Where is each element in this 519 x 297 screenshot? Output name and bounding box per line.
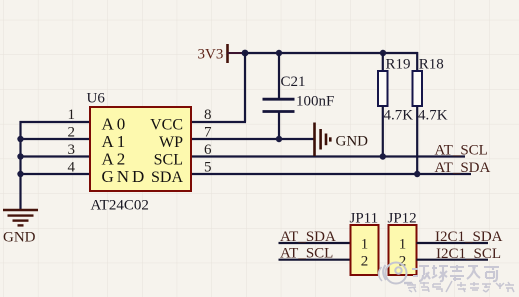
pin number 5 [204, 160, 212, 176]
svg-text:I2C1_SDA: I2C1_SDA [435, 229, 503, 245]
net label AT_SDA [435, 160, 491, 176]
designator JP12 [388, 211, 417, 227]
svg-text:1: 1 [361, 236, 369, 252]
JP12 pin 1 [399, 236, 407, 252]
wire JP12 pin2 I2C1_SCL [417, 259, 489, 261]
svg-text:4.7K: 4.7K [418, 108, 448, 124]
svg-text:AT_SDA: AT_SDA [280, 229, 336, 245]
power port 3V3 [198, 44, 246, 63]
svg-text:GND: GND [336, 134, 369, 150]
svg-text:GND: GND [3, 230, 36, 246]
svg-text:1: 1 [68, 107, 76, 123]
svg-text:AT24C02: AT24C02 [91, 198, 149, 214]
pin number 4 [68, 160, 76, 176]
watermark big text strokes [412, 265, 499, 281]
svg-text:AT_SDA: AT_SDA [435, 160, 491, 176]
junction C21 bottom [276, 136, 282, 142]
svg-text:WP: WP [159, 134, 183, 151]
junction R18 bottom [414, 171, 420, 177]
part name AT24C02 [91, 198, 149, 214]
pin name A0 [102, 114, 129, 133]
junction pin2 bus [17, 136, 23, 142]
net label I2C1_SCL [436, 246, 501, 262]
svg-text:A2: A2 [102, 149, 129, 168]
label C21 [281, 74, 306, 90]
capacitor C21 [263, 53, 295, 139]
svg-text:C21: C21 [281, 74, 306, 90]
net label AT_SCL [435, 142, 488, 158]
wire pin6 AT_SCL [191, 155, 465, 157]
ground symbol left [3, 210, 38, 225]
wire VCC drop [244, 52, 246, 122]
resistor R19 [378, 53, 388, 157]
pin number 1 [68, 107, 76, 123]
net label AT_SDA (JP11) [280, 229, 336, 245]
svg-text:1: 1 [399, 236, 407, 252]
svg-text:R18: R18 [419, 57, 444, 73]
net label I2C1_SDA [435, 229, 503, 245]
wire 3V3 rail [245, 52, 418, 54]
label R18 [419, 57, 444, 73]
resistor R18 [413, 52, 423, 174]
svg-text:U6: U6 [87, 91, 106, 107]
junction 3V3 stub [242, 50, 249, 57]
svg-text:100nF: 100nF [296, 94, 334, 110]
pin name SDA [151, 169, 183, 186]
wire pin1 left [20, 121, 91, 123]
junction C21 top [276, 50, 282, 56]
pin number 3 [68, 142, 76, 158]
svg-text:3V3: 3V3 [198, 47, 224, 63]
svg-text:VCC: VCC [150, 116, 183, 133]
value 100nF [296, 94, 334, 110]
pin number 6 [204, 142, 212, 158]
wire pin5 AT_SDA [191, 173, 471, 175]
IC U6 AT24C02 [90, 107, 191, 191]
svg-text:AT_SCL: AT_SCL [280, 246, 333, 262]
svg-text:5: 5 [204, 160, 212, 176]
svg-text:2: 2 [361, 253, 369, 269]
ground symbol mid (bar style) [315, 123, 331, 157]
JP12 pin 2 [399, 253, 407, 269]
connector JP12 [389, 225, 417, 275]
svg-text:A1: A1 [102, 132, 129, 151]
wire JP12 pin1 I2C1_SDA [417, 242, 489, 244]
wire left bus vertical [19, 121, 21, 209]
pin name GND [102, 167, 148, 186]
JP11 pin 1 [361, 236, 369, 252]
pin number 7 [204, 125, 212, 141]
wire JP11 pin2 AT_SCL [279, 259, 351, 261]
svg-text:2: 2 [68, 125, 76, 141]
svg-text:6: 6 [204, 142, 212, 158]
junction R19 bottom [380, 153, 386, 159]
wire pin2 left [20, 138, 91, 140]
pin number 8 [204, 107, 212, 123]
svg-text:JP11: JP11 [350, 211, 379, 227]
watermark small text strokes [407, 281, 514, 292]
wire pin8 [191, 121, 246, 123]
pin name A2 [102, 149, 129, 168]
wire pin3 left [20, 155, 91, 157]
wire JP11 pin1 AT_SDA [279, 242, 351, 244]
wire pin7 [191, 138, 314, 140]
pin name WP [159, 134, 183, 151]
connector JP11 [351, 225, 379, 275]
designator JP11 [350, 211, 379, 227]
svg-text:4: 4 [68, 160, 76, 176]
pin number 2 [68, 125, 76, 141]
label GND mid [336, 134, 369, 150]
net label AT_SCL (JP11) [280, 246, 333, 262]
svg-text:SCL: SCL [154, 151, 183, 168]
label R19 [386, 57, 411, 73]
watermark logo circle [379, 263, 411, 284]
svg-text:R19: R19 [386, 57, 411, 73]
svg-text:SDA: SDA [151, 169, 183, 186]
designator U6 [87, 91, 106, 107]
value 4.7K R18 [418, 108, 448, 124]
svg-text:8: 8 [204, 107, 212, 123]
pin name VCC [150, 116, 183, 133]
pin name SCL [154, 151, 183, 168]
svg-text:4.7K: 4.7K [384, 108, 414, 124]
svg-text:I2C1_SCL: I2C1_SCL [436, 246, 501, 262]
pin name A1 [102, 132, 129, 151]
value 4.7K R19 [384, 108, 414, 124]
svg-text:JP12: JP12 [388, 211, 417, 227]
svg-text:7: 7 [204, 125, 212, 141]
wire pin4 left [20, 173, 91, 175]
label GND left [3, 230, 36, 246]
JP11 pin 2 [361, 253, 369, 269]
junction R19 top [380, 50, 386, 56]
svg-text:A0: A0 [102, 114, 129, 133]
svg-text:GND: GND [102, 167, 148, 186]
svg-text:AT_SCL: AT_SCL [435, 142, 488, 158]
junction pin4 bus [17, 171, 23, 177]
svg-text:3: 3 [68, 142, 76, 158]
junction pin3 bus [17, 153, 23, 159]
